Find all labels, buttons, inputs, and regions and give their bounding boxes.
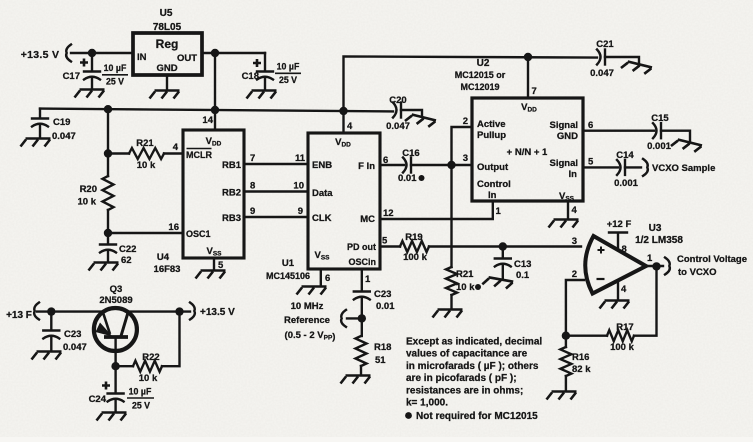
svg-text:+ N/N + 1: + N/N + 1 [507, 147, 548, 158]
svg-text:R22: R22 [142, 352, 159, 363]
svg-text:+13 F: +13 F [6, 310, 32, 321]
svg-text:GND: GND [156, 63, 177, 74]
resistor R21 10k* [446, 267, 481, 309]
svg-text:16: 16 [168, 222, 179, 233]
svg-text:1/2 LM358: 1/2 LM358 [635, 235, 683, 246]
svg-text:OSCin: OSCin [348, 257, 376, 267]
svg-text:9: 9 [250, 206, 255, 217]
ground C15 [671, 138, 702, 153]
svg-text:14: 14 [202, 115, 213, 126]
svg-text:C24: C24 [89, 394, 107, 405]
node junction R16/R17 [562, 332, 570, 340]
resistor R21 10k (MCLR) [108, 138, 183, 171]
node junction Q3 base [111, 362, 119, 370]
ic U2 MC12015 [455, 58, 583, 203]
svg-text:IN: IN [137, 52, 147, 63]
wire feedback [634, 266, 657, 335]
svg-text:MC12019: MC12019 [460, 82, 499, 92]
capacitor C21 [590, 39, 639, 79]
svg-text:11: 11 [295, 153, 306, 164]
svg-text:62: 62 [121, 255, 132, 266]
svg-text:+13.5 V: +13.5 V [200, 307, 235, 318]
svg-text:Reference: Reference [284, 315, 330, 326]
ground C19 [21, 139, 51, 147]
wire PD out [380, 236, 400, 247]
svg-text:U1: U1 [282, 258, 295, 269]
svg-text:U2: U2 [477, 58, 490, 69]
op-amp U3 1/2 LM358 [585, 223, 683, 294]
svg-text:10: 10 [293, 181, 304, 192]
ground R16 [547, 392, 577, 400]
svg-text:10 µF: 10 µF [129, 387, 152, 397]
svg-text:16F83: 16F83 [154, 264, 181, 275]
svg-text:VCXO Sample: VCXO Sample [652, 163, 715, 174]
wire collector down to R22 [162, 312, 180, 367]
svg-text:values of capacitance are: values of capacitance are [406, 349, 528, 360]
wire OUT down to +5V rail [214, 53, 216, 110]
svg-text:Reg: Reg [156, 37, 179, 51]
svg-text:10 MHz: 10 MHz [291, 301, 324, 312]
node VCXO Sample [643, 159, 715, 176]
capacitor C23 0.01 [354, 289, 395, 318]
wire C15 to ground [661, 131, 690, 142]
ground R18 [341, 376, 371, 384]
svg-text:C16: C16 [402, 148, 419, 159]
svg-text:GND: GND [557, 131, 578, 142]
svg-text:10 k: 10 k [456, 282, 475, 293]
svg-text:Data: Data [312, 188, 333, 199]
svg-text:78L05: 78L05 [153, 22, 182, 33]
svg-text:MC145106: MC145106 [266, 271, 310, 281]
ground C22 [89, 263, 119, 271]
svg-text:C22: C22 [119, 244, 136, 255]
svg-text:Pullup: Pullup [477, 130, 506, 141]
svg-text:U5: U5 [160, 8, 173, 19]
svg-text:0.1: 0.1 [516, 270, 530, 281]
svg-text:0.047: 0.047 [63, 342, 87, 353]
regulator U5 78L05 [133, 8, 202, 75]
capacitor C16 [398, 148, 425, 184]
svg-text:9: 9 [298, 206, 303, 217]
svg-text:are in picofarads ( pF );: are in picofarads ( pF ); [406, 373, 517, 384]
wire U5 OUT [202, 52, 265, 54]
resistor R17 100k [566, 322, 635, 353]
pin 4 U2 VSS [568, 201, 578, 219]
node junction collector [175, 307, 183, 315]
svg-text:Signal: Signal [549, 158, 578, 169]
wire pin2 branch [452, 116, 473, 165]
svg-text:1: 1 [496, 206, 502, 217]
svg-text:R19: R19 [405, 232, 422, 243]
wire RB2 to Data [244, 181, 308, 192]
svg-text:Not required for MC12015: Not required for MC12015 [416, 411, 538, 422]
svg-text:C17: C17 [63, 71, 80, 82]
pin 7 U2 VDD [528, 57, 537, 98]
wire OSC1 to U4 [108, 222, 183, 233]
svg-text:7: 7 [532, 86, 537, 97]
node junction U5 OUT [211, 49, 219, 57]
capacitor C23 0.047 [43, 312, 86, 353]
svg-text:Except as indicated, decimal: Except as indicated, decimal [406, 337, 542, 348]
node junction 10MHz ref [358, 314, 366, 322]
svg-text:0.001: 0.001 [614, 178, 638, 189]
ground C20 [405, 113, 436, 128]
svg-text:100 k: 100 k [403, 252, 427, 263]
svg-text:82 k: 82 k [572, 364, 591, 375]
capacitor C18 [242, 53, 301, 90]
svg-text:OUT: OUT [177, 53, 197, 64]
svg-text:Q3: Q3 [110, 284, 123, 295]
node rail junction x343 [339, 107, 347, 115]
wire Signal In to C14 [583, 157, 618, 168]
svg-text:resistances are in ohms;: resistances are in ohms; [406, 385, 523, 396]
node junction output [652, 262, 660, 270]
node rail junction x215 [211, 106, 219, 114]
ground C23b [32, 352, 62, 360]
resistor R20 10k [78, 176, 114, 210]
ground C24 [97, 413, 127, 421]
svg-text:7: 7 [250, 153, 255, 164]
node Control Voltage output [665, 254, 747, 278]
ground U5 [150, 91, 180, 99]
wire C16 to U2 pin3 [411, 153, 472, 165]
capacitor C20 [386, 95, 422, 132]
svg-text:OSC1: OSC1 [186, 229, 211, 239]
wire op-amp pin2 input [566, 269, 584, 336]
svg-text:R17: R17 [616, 322, 633, 333]
wire +13F to Q3 emitter [37, 310, 103, 312]
node 10MHz Reference input [284, 301, 346, 343]
svg-text:Active: Active [477, 119, 506, 130]
pin 5 U4 VSS [214, 258, 224, 271]
svg-text:C23: C23 [374, 289, 391, 300]
wire +13.5V to U5 IN [71, 52, 133, 54]
svg-text:C13: C13 [514, 259, 531, 270]
node junction U2 pin7 [524, 53, 532, 61]
svg-text:R20: R20 [80, 184, 97, 195]
svg-text:ENB: ENB [312, 160, 332, 171]
resistor R22 10k [116, 352, 162, 384]
capacitor C14 [614, 150, 638, 189]
node junction C17 [88, 49, 96, 57]
wire x108 column [107, 109, 109, 244]
ground C17 [75, 90, 105, 98]
node +13.5V at Q3 [190, 303, 235, 320]
pin 14 U4 VDD [202, 110, 215, 130]
wire ref bracket stub [347, 317, 362, 319]
transistor Q3 2N5089 [94, 284, 137, 366]
svg-text:2N5089: 2N5089 [99, 295, 132, 306]
svg-text:3: 3 [572, 236, 577, 247]
svg-text:CLK: CLK [312, 213, 332, 224]
svg-text:1: 1 [365, 274, 371, 285]
svg-text:12: 12 [383, 208, 394, 219]
svg-text:6: 6 [588, 120, 593, 131]
node junction C23b [47, 307, 55, 315]
svg-text:RB2: RB2 [222, 188, 241, 199]
svg-text:Control: Control [477, 179, 511, 190]
svg-text:10 k: 10 k [137, 160, 156, 171]
svg-text:25 V: 25 V [106, 77, 124, 87]
resistor R19 100k [400, 232, 429, 263]
svg-text:MCLR: MCLR [186, 150, 212, 160]
svg-text:+12 F: +12 F [607, 219, 632, 230]
wire F In to C16 [380, 155, 404, 166]
wire RB3 to CLK [244, 206, 308, 217]
text MC12015 note [405, 411, 538, 422]
pin 4 U1 VDD [344, 111, 354, 133]
svg-text:0.001: 0.001 [647, 141, 671, 152]
ground C13 [482, 276, 513, 289]
ground U4 VSS [196, 271, 226, 279]
svg-text:Signal: Signal [549, 120, 578, 131]
svg-text:R18: R18 [374, 342, 391, 353]
capacitor C13 [495, 247, 532, 282]
svg-text:RB1: RB1 [222, 160, 242, 171]
wire op-amp output [646, 253, 663, 266]
ground C21 [621, 60, 652, 75]
svg-text:4: 4 [173, 142, 179, 153]
node rail junction x108 [104, 105, 112, 113]
node +13F output [6, 303, 39, 322]
svg-text:PD out: PD out [347, 242, 376, 252]
svg-text:R21: R21 [456, 269, 474, 280]
ic U1 MC145106 [266, 133, 380, 281]
svg-text:10 µF: 10 µF [104, 63, 127, 73]
wire U5 GND lead [166, 75, 168, 90]
wire R19 to op-amp [429, 236, 581, 247]
text units note [406, 337, 542, 409]
svg-text:25 V: 25 V [132, 401, 150, 411]
svg-text:RB3: RB3 [222, 213, 241, 224]
svg-text:5: 5 [382, 236, 388, 247]
svg-text:U4: U4 [157, 252, 170, 263]
svg-text:25 V: 25 V [279, 75, 297, 85]
resistor R18 51 [356, 336, 392, 375]
power +12F op-amp pin8 [607, 219, 632, 255]
svg-text:6: 6 [383, 155, 388, 166]
svg-text:2: 2 [463, 116, 468, 127]
capacitor C22 [100, 244, 136, 266]
svg-text:0.01: 0.01 [376, 301, 395, 312]
ground R21* [433, 310, 463, 318]
wire RB1 to ENB [244, 153, 308, 164]
svg-text:U3: U3 [649, 223, 662, 234]
capacitor C17 [63, 53, 128, 89]
pin 6 U1 VSS [321, 269, 330, 286]
ic U4 16F83 [154, 130, 244, 275]
node junction OSC1 [104, 229, 112, 237]
svg-text:4: 4 [621, 284, 627, 295]
svg-text:0.047: 0.047 [590, 68, 614, 79]
svg-text:C19: C19 [53, 117, 70, 128]
ground U2 VSS [549, 220, 579, 228]
svg-text:1: 1 [647, 253, 653, 264]
wire MC to U2 pin1 [380, 201, 502, 219]
node +13.5V input [21, 45, 71, 62]
svg-text:in microfarads ( µF ); others: in microfarads ( µF ); others [406, 361, 539, 372]
wire Q3 collector to +13.5V [128, 310, 190, 312]
svg-text:F In: F In [358, 161, 375, 172]
svg-text:C14: C14 [616, 150, 634, 161]
node junction C16/R21 [447, 161, 455, 169]
svg-text:C18: C18 [242, 71, 259, 82]
capacitor C24 [89, 366, 154, 412]
svg-text:51: 51 [375, 355, 386, 366]
svg-text:MC: MC [360, 214, 375, 225]
pin 4 op-amp [618, 281, 627, 300]
svg-text:In: In [569, 169, 578, 180]
svg-text:R16: R16 [572, 352, 589, 363]
resistor R16 82k [560, 336, 591, 391]
capacitor C15 [647, 113, 671, 152]
svg-text:10 µF: 10 µF [277, 62, 300, 72]
svg-text:0.047: 0.047 [386, 121, 410, 132]
svg-text:to VCXO: to VCXO [678, 267, 717, 278]
wire +5V rail [40, 109, 393, 112]
svg-text:5: 5 [588, 157, 594, 168]
svg-text:MC12015 or: MC12015 or [455, 70, 506, 80]
svg-text:R21: R21 [136, 138, 154, 149]
svg-text:8: 8 [622, 244, 627, 255]
svg-text:Control Voltage: Control Voltage [677, 254, 747, 265]
svg-text:10 k: 10 k [78, 197, 97, 208]
ground U1 VSS [297, 287, 327, 295]
wire U1 VDD riser and top line [344, 56, 598, 111]
svg-text:4: 4 [572, 205, 578, 216]
ground op-amp [600, 301, 630, 309]
wire R21 branch down [450, 165, 452, 267]
svg-text:C15: C15 [651, 113, 669, 124]
svg-text:100 k: 100 k [610, 342, 634, 353]
node junction C13 [499, 242, 507, 250]
svg-text:6: 6 [325, 273, 330, 284]
svg-text:Output: Output [477, 162, 509, 173]
svg-text:10 k: 10 k [139, 373, 158, 384]
svg-text:+13.5 V: +13.5 V [21, 49, 60, 61]
svg-text:C23: C23 [64, 329, 81, 340]
wire C14 to VCXO sample [625, 166, 641, 168]
svg-text:C21: C21 [596, 39, 614, 50]
ground C18 [247, 91, 277, 99]
svg-text:0.01: 0.01 [398, 173, 417, 184]
svg-text:2: 2 [572, 269, 577, 280]
svg-text:4: 4 [347, 121, 353, 132]
svg-text:3: 3 [463, 153, 468, 164]
svg-text:k= 1,000.: k= 1,000. [406, 398, 448, 409]
svg-text:In: In [488, 190, 497, 201]
svg-text:C20: C20 [389, 95, 406, 106]
capacitor C19 [32, 109, 76, 142]
pin 1 U1 OSCin [362, 269, 371, 291]
node junction R21/R20 [104, 149, 112, 157]
wire junction to R18 [361, 318, 363, 336]
svg-text:8: 8 [250, 181, 255, 192]
svg-text:0.047: 0.047 [52, 131, 76, 142]
wire Signal GND to C15 [583, 120, 654, 131]
